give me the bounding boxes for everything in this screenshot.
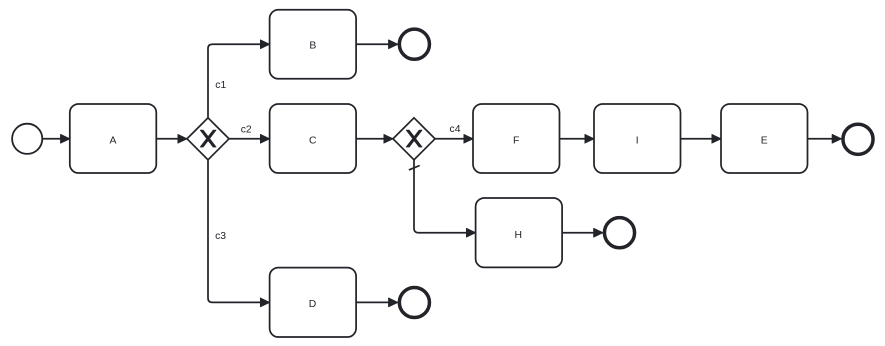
svg-text:c4: c4 [450, 124, 461, 135]
svg-text:A: A [110, 135, 117, 146]
svg-text:F: F [513, 135, 519, 146]
svg-text:C: C [309, 135, 317, 146]
svg-text:c1: c1 [215, 80, 226, 91]
svg-text:E: E [761, 135, 768, 146]
svg-text:c3: c3 [215, 231, 226, 242]
svg-text:I: I [636, 135, 639, 146]
svg-text:c2: c2 [241, 124, 252, 135]
svg-text:B: B [309, 41, 316, 52]
svg-text:D: D [309, 299, 317, 310]
svg-text:H: H [515, 230, 523, 241]
